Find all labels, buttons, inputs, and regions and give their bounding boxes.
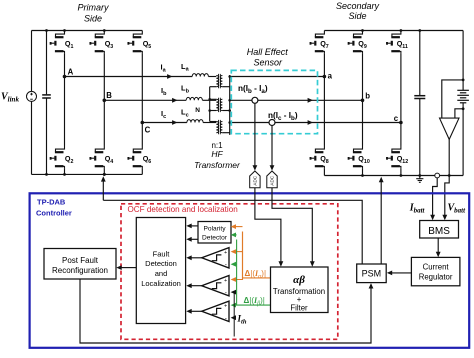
node c (394, 114, 403, 124)
battery Vbatt (457, 31, 469, 176)
TP-DAB controller box (30, 193, 470, 347)
wire leg B upper (103, 53, 105, 100)
wire BMS to current regulator (436, 238, 441, 257)
label TP-DAB Controller (36, 197, 72, 217)
svg-text:Fault: Fault (153, 249, 171, 258)
transistor Q9 (349, 31, 367, 54)
label Vbatt (448, 203, 467, 215)
wire secondary top rail (324, 29, 463, 32)
transistor Q7 (311, 31, 329, 54)
svg-text:Transformer: Transformer (194, 160, 241, 170)
svg-text:c: c (394, 114, 399, 123)
svg-text:Current: Current (423, 262, 450, 271)
ADC 1 (250, 171, 260, 188)
svg-text:PSM: PSM (362, 269, 382, 279)
source Vlink (27, 31, 37, 175)
transistor Q5 (128, 31, 151, 54)
svg-text:Controller: Controller (36, 209, 72, 218)
svg-text:Regulator: Regulator (419, 272, 453, 281)
svg-text:and: and (155, 269, 168, 278)
svg-text:HF: HF (211, 149, 223, 159)
transistor Q10 (349, 146, 370, 169)
label Secondary Side (336, 1, 380, 21)
wire Vbatt (442, 176, 449, 221)
block Current Regulator (411, 257, 460, 285)
wire Ibatt (430, 178, 437, 220)
capacitor C2 (output) (414, 31, 425, 176)
transistor Q4 (90, 146, 113, 169)
label delta I alpha (orange) (245, 269, 267, 280)
node a (323, 71, 333, 80)
wire amplifier output (448, 139, 450, 175)
wire secondary line a (230, 76, 325, 78)
wire phase a (65, 74, 193, 79)
ground (416, 176, 423, 183)
svg-text:C: C (145, 125, 151, 134)
wire phase c to transformer (203, 122, 216, 124)
svg-text:Filter: Filter (290, 303, 308, 312)
wire primary bottom rail (32, 173, 143, 176)
transistor Q6 (128, 146, 151, 169)
wire ADC1 to transformation (255, 188, 283, 267)
OCF detection box (dashed) (121, 204, 338, 339)
label Primary Side (78, 2, 109, 23)
svg-text:b: b (365, 92, 370, 101)
block BMS (420, 221, 459, 239)
svg-text:Polarity: Polarity (204, 226, 227, 233)
svg-text:a: a (328, 71, 333, 80)
label Ia (161, 63, 167, 74)
wire comparator U3 output (186, 309, 201, 314)
node b (361, 92, 371, 103)
svg-text:ADC: ADC (270, 175, 275, 185)
comparator U1 (202, 248, 229, 269)
wire beta signal (green) (231, 233, 271, 308)
wire leg B lower (103, 100, 105, 174)
label Ib (161, 86, 167, 97)
wire Ith threshold (231, 290, 236, 337)
inductor Lc (181, 108, 203, 123)
block Post Fault Reconfiguration (44, 249, 116, 280)
capacitor C1 (dc link) (42, 31, 51, 175)
wire secondary line c (230, 120, 401, 125)
svg-text:Reconfiguration: Reconfiguration (52, 266, 108, 275)
hall sensor 1 n(Ib-Ia) (238, 84, 268, 104)
wire gate signal branch (103, 200, 362, 264)
inductor Lb (181, 84, 202, 101)
wire gate signal to secondary bridge (379, 175, 384, 264)
svg-text:BMS: BMS (428, 226, 450, 237)
inductor La (181, 62, 208, 77)
svg-text:Hall Effect: Hall Effect (247, 47, 289, 57)
block alpha-beta transformation (271, 267, 329, 313)
wire leg a (323, 53, 325, 175)
svg-text:Primary: Primary (78, 2, 109, 12)
wire leg C lower (141, 123, 143, 175)
transistor Q3 (90, 31, 113, 54)
svg-text:A: A (68, 68, 74, 77)
transistor Q11 (387, 31, 408, 54)
svg-text:B: B (106, 91, 112, 100)
label N (neutral) (195, 107, 200, 114)
svg-text:Detection: Detection (145, 259, 177, 268)
label delta I beta (green) (244, 296, 265, 307)
wire phase a to transformer (208, 76, 216, 78)
svg-text:Side: Side (84, 14, 102, 24)
wire fault to post fault (116, 265, 136, 270)
wire phase c (142, 120, 187, 125)
node A (63, 68, 74, 79)
transistor Q2 (51, 146, 74, 169)
comparator U3 (202, 301, 229, 322)
wire current regulator to PSM (387, 271, 412, 276)
svg-text:Side: Side (348, 11, 366, 21)
wire gate signal to primary bridge (101, 173, 106, 200)
wire post fault to PSM (80, 279, 373, 343)
wire phase b (104, 98, 186, 103)
block PSM (357, 264, 387, 283)
svg-text:Secondary: Secondary (336, 1, 380, 11)
wire leg C upper (141, 53, 143, 122)
wire secondary line b (230, 98, 363, 103)
transistor Q12 (387, 146, 408, 169)
wire comparator U1 output (186, 255, 201, 260)
transistor Q8 (311, 146, 329, 169)
wire leg A lower (64, 77, 66, 175)
ADC 2 (267, 171, 277, 188)
transistor Q1 (51, 31, 74, 54)
svg-text:ADC: ADC (253, 175, 258, 185)
svg-text:N: N (195, 107, 200, 114)
svg-text:Localization: Localization (141, 279, 181, 288)
label Ith (237, 314, 247, 326)
svg-text:Post Fault: Post Fault (62, 256, 99, 265)
wire battery bottom tap (455, 107, 465, 118)
transformer T1 (n:1 HF) (208, 74, 231, 135)
svg-text:OCF detection and localization: OCF detection and localization (128, 205, 238, 214)
wire phase b to transformer (202, 99, 216, 101)
hall sensor 2 n(Ic-Ib) (268, 111, 298, 126)
label OCF detection and localization (128, 205, 238, 214)
label Hall Effect Sensor (247, 47, 289, 67)
wire leg A upper (64, 53, 66, 76)
svg-text:αβ: αβ (293, 274, 305, 286)
label Ibatt (409, 203, 426, 215)
block Fault Detection and Localization (136, 218, 185, 324)
label Ic (161, 109, 166, 120)
wire polarity detector out 1 (186, 224, 198, 229)
wire alpha signal (orange) (231, 224, 271, 282)
hall sensor box (dashed) (231, 70, 317, 133)
current sensor (Ibatt) (435, 173, 440, 178)
comparator U2 (202, 276, 229, 297)
node C (141, 121, 151, 135)
svg-text:TP-DAB: TP-DAB (37, 197, 66, 206)
wire hall sensor 2 to ADC2 (270, 126, 275, 171)
wire hall sensor 1 to ADC1 (253, 103, 258, 170)
wire comparator U2 output (186, 283, 201, 288)
wire polarity detector out 2 (186, 237, 198, 242)
svg-text:Sensor: Sensor (254, 57, 284, 67)
label n:1 HF Transformer (194, 141, 241, 170)
amplifier (battery monitor) (440, 118, 460, 139)
wire battery sense loop (442, 79, 465, 119)
wire leg b (362, 53, 364, 175)
svg-text:Detector: Detector (202, 235, 228, 242)
node B (103, 91, 113, 102)
wire ADC2 to transformation (272, 188, 315, 267)
label Vlink (1, 92, 19, 104)
wire primary top rail (32, 29, 143, 32)
block Polarity Detector (198, 222, 231, 244)
wire leg c (400, 53, 402, 175)
wire secondary bottom rail (324, 174, 463, 177)
